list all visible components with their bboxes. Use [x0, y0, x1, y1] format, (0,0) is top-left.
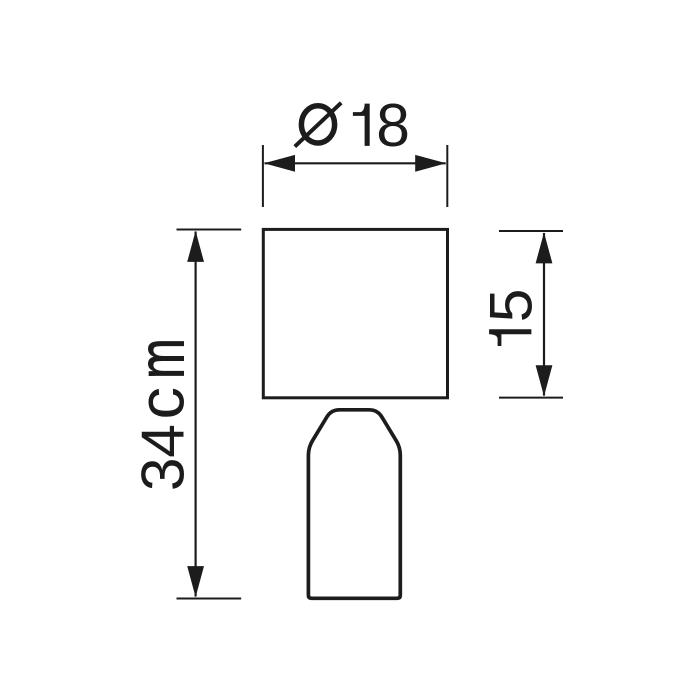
svg-text:m: m — [126, 338, 198, 379]
right dimension: tick bottom — [499, 397, 563, 399]
svg-text:5: 5 — [476, 289, 544, 323]
left dimension: tick bottom — [177, 598, 242, 600]
top dimension: extension line left — [262, 145, 264, 207]
svg-text:3: 3 — [128, 457, 196, 491]
right dimension: top arrowhead — [536, 232, 553, 263]
right dimension label "15" (rotated) — [489, 329, 531, 346]
svg-text:4: 4 — [128, 424, 196, 458]
svg-text:c: c — [124, 387, 197, 420]
left dimension: bottom arrowhead — [187, 566, 204, 597]
top dimension: left arrowhead — [264, 155, 295, 172]
left dimension line — [195, 232, 197, 597]
top dimension line — [265, 162, 446, 164]
right dimension: bottom arrowhead — [536, 365, 553, 396]
lamp base (bottle shape) — [308, 410, 400, 599]
right dimension line — [543, 233, 545, 396]
top dimension: right arrowhead — [415, 155, 446, 172]
svg-text:8: 8 — [376, 91, 410, 159]
left dimension: top arrowhead — [187, 231, 204, 262]
left dimension: tick top — [177, 229, 242, 231]
right dimension: tick top — [499, 230, 563, 232]
lamp shade (rectangle) — [263, 229, 447, 397]
top dimension: extension line right — [446, 145, 448, 207]
top dimension label "Ø 18": diameter symbol (circle + slash) — [301, 106, 334, 143]
